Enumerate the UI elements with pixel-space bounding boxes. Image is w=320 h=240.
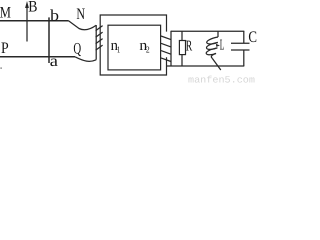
svg-text:L: L bbox=[220, 38, 225, 54]
stray ink dot bbox=[1, 68, 2, 69]
svg-text:2: 2 bbox=[146, 44, 150, 54]
svg-text:M: M bbox=[0, 5, 11, 22]
svg-text:R: R bbox=[186, 38, 192, 54]
capacitor C plates bbox=[231, 42, 250, 44]
transformer T primary winding n1 bus bbox=[95, 25, 97, 60]
svg-text:b: b bbox=[50, 8, 59, 25]
wire secondary bottom rail bbox=[167, 65, 245, 67]
transformer T primary winding n1 turns bbox=[96, 26, 103, 31]
transformer T outer frame bbox=[100, 15, 166, 75]
capacitor C bottom lead bbox=[243, 50, 245, 66]
wire N to primary winding bbox=[69, 21, 97, 30]
resistor R leads bbox=[181, 31, 183, 41]
wire rail P-Q (bottom) bbox=[0, 56, 75, 58]
svg-text:P: P bbox=[1, 40, 9, 57]
transformer T secondary winding n2 bus bbox=[170, 31, 172, 66]
magnetic field arrow B bbox=[26, 7, 28, 42]
inductor L coil with arrow bbox=[207, 37, 218, 44]
inductor L top lead bbox=[217, 31, 219, 37]
svg-text:1: 1 bbox=[117, 44, 120, 54]
svg-text:B: B bbox=[28, 0, 37, 15]
svg-text:N: N bbox=[76, 6, 85, 23]
svg-text:manfen5.com: manfen5.com bbox=[188, 74, 255, 85]
transformer T secondary winding n2 turns bbox=[161, 36, 171, 40]
svg-text:a: a bbox=[50, 53, 58, 70]
svg-text:C: C bbox=[248, 29, 257, 46]
wire secondary top rail bbox=[171, 30, 244, 32]
resistor R body bbox=[179, 41, 185, 55]
transformer T iron core bbox=[108, 25, 161, 70]
wire rail M-N (top) bbox=[0, 20, 69, 22]
capacitor C top lead bbox=[243, 31, 245, 43]
conducting rod a-b bbox=[48, 17, 50, 63]
svg-text:Q: Q bbox=[73, 41, 81, 58]
wire Q to primary winding bbox=[75, 57, 96, 62]
